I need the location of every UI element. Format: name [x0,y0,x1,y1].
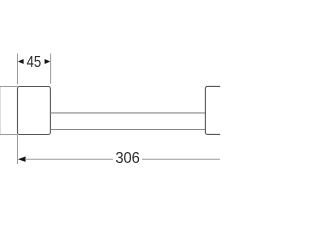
dimension 45: right arrow [45,59,51,64]
dimension 45: left extension line [17,54,19,85]
svg-text:45: 45 [27,54,42,71]
dimension 306: dimension line left segment [25,158,113,160]
dimension 45: right extension line [50,54,52,84]
bar (tube) bottom line [50,129,205,131]
bar (tube) top line [50,112,205,114]
dimension 306: dimension line right segment (cropped at right edge) [142,158,221,160]
svg-text:306: 306 [115,149,140,167]
right mounting block (cropped at right image edge) [205,86,238,134]
dimension 45: left arrow [18,59,24,64]
left mounting block [18,87,51,135]
dimension 306: left extension line [17,135,19,164]
wall plate (cropped at left image edge) [0,87,18,135]
dimension 306: left arrow [18,157,26,162]
